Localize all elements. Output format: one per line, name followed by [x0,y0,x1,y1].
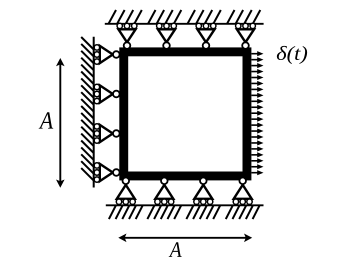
roller support top T3 [196,23,216,49]
roller support bottom B2 [155,178,174,205]
ground line left [93,37,95,188]
distributed load delta(t) arrows [252,51,264,175]
hatching bottom ground [109,206,260,220]
roller support left L3 [94,124,119,144]
roller support left L4 [94,163,119,183]
roller support left L2 [94,84,119,104]
plate (square frame) [124,52,247,176]
label A (bottom) [169,242,182,257]
hatching left ground [81,37,94,181]
roller support top T4 [236,23,256,49]
roller support top T1 [117,23,137,49]
dimension arrow A (left, vertical) [56,58,65,188]
label A (left) [39,112,54,128]
roller support left L1 [94,45,119,65]
label delta(t) [277,46,307,64]
ground line top [105,23,264,25]
roller support bottom B4 [233,178,252,205]
ground line bottom [106,204,264,206]
dimension arrow A (bottom, horizontal) [118,234,252,243]
roller support top T2 [157,23,177,49]
roller support bottom B1 [116,178,135,205]
roller support bottom B3 [194,178,213,205]
hatching top ground [109,10,261,24]
